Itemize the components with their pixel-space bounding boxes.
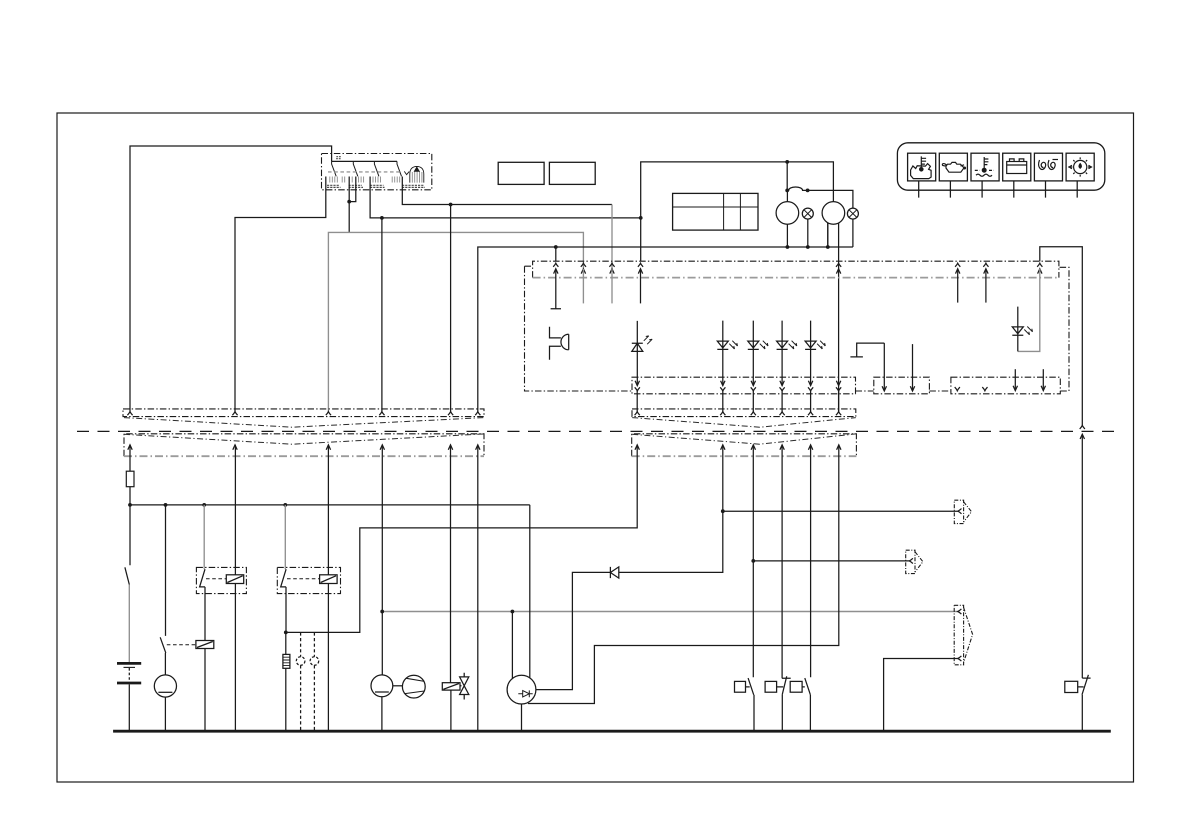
diode D1 bbox=[610, 567, 618, 578]
label 30 bbox=[336, 157, 341, 159]
ground bracket wire to strip bbox=[883, 343, 885, 391]
separator crossing arrow up bbox=[1080, 425, 1085, 429]
LED 3 bbox=[748, 321, 759, 386]
junction 15/54 branch bbox=[380, 216, 384, 220]
lamp supply rail with fuse squiggle bbox=[787, 187, 853, 247]
LED 4 bbox=[777, 321, 788, 386]
battery to ground bbox=[128, 684, 130, 731]
junction plug2 bbox=[751, 559, 755, 563]
regulator ground lead bbox=[521, 704, 523, 731]
page frame bbox=[57, 113, 1134, 782]
solenoid valve coil wire bbox=[450, 445, 452, 731]
cluster pin 2 grey lead bbox=[581, 263, 586, 267]
G2 sense wire through cluster bbox=[836, 381, 840, 386]
wire: instrument ground rail net A bbox=[478, 219, 853, 412]
terminal label 50a bbox=[327, 185, 341, 187]
junction bus sensor branch bbox=[164, 503, 168, 507]
ignition switch box S1 bbox=[322, 154, 432, 190]
junction K2 output bbox=[284, 631, 288, 635]
fuel sender feed wire bbox=[381, 445, 383, 675]
right connector top strip bbox=[632, 409, 856, 417]
gauge G1 circle bbox=[776, 202, 799, 225]
fuel pump circle bbox=[402, 675, 425, 698]
aux coil to ground bbox=[204, 649, 206, 732]
aux relay coil K3 bbox=[196, 641, 214, 649]
comb terminal 50a bbox=[330, 177, 338, 183]
relay K1 coil wire bbox=[234, 445, 236, 731]
cluster pin G2 sense arrows bbox=[836, 263, 841, 267]
dashed separator line between upper and lower harness bbox=[77, 430, 1118, 432]
grey link pin7 to warning LED bbox=[1018, 269, 1040, 352]
junction bus relay2 bbox=[283, 503, 287, 507]
comb terminal 19 bbox=[359, 177, 364, 183]
terminal label 15/54 bbox=[370, 185, 385, 187]
cluster lower strip segment 3 bbox=[951, 377, 1060, 394]
relay K1 coil bbox=[226, 575, 243, 584]
junction gauge1 bottom bbox=[786, 245, 790, 249]
relay K2 coil bbox=[320, 575, 338, 584]
cluster pin 5 bbox=[955, 263, 960, 267]
mechanical link of ignition switch bbox=[328, 171, 402, 173]
junction at gauge 1 top bbox=[785, 160, 789, 164]
icon square coolant temperature bbox=[971, 153, 999, 181]
gauge G1 top lead bbox=[786, 190, 788, 201]
right harness crossover fan bbox=[632, 418, 856, 445]
switch contact 3 bbox=[374, 161, 379, 176]
wire: battery feed to terminal 30 of ignition switch bbox=[130, 146, 332, 412]
relay K2 contact bbox=[281, 569, 286, 632]
right strip pin arrows bottom bbox=[635, 445, 639, 450]
fuse F1 bbox=[129, 445, 131, 505]
gauge G2 bottom leads bbox=[828, 223, 839, 412]
comb terminal 15/54 bbox=[373, 177, 381, 183]
cluster lower strip segment 1 bbox=[632, 377, 856, 394]
seg3 stub pin 1 bbox=[1014, 369, 1016, 390]
wire relay K2 output to HT rail and right connector bbox=[286, 445, 637, 633]
switch contact 2 bbox=[353, 161, 358, 176]
cluster pin 3 grey lead bbox=[609, 263, 614, 267]
ground bus bbox=[113, 730, 1111, 733]
terminal label 07/19 bbox=[349, 185, 364, 187]
cluster lower strip segment 2 bbox=[874, 377, 930, 394]
left strip pin arrows bottom bbox=[128, 445, 132, 450]
lamp L2 bulb bbox=[847, 208, 858, 219]
spare ground wire bbox=[477, 445, 479, 731]
main switch to battery bbox=[125, 505, 130, 585]
relay K1 contact bbox=[200, 569, 205, 640]
cluster pin 1 bbox=[553, 263, 558, 267]
grey wire: 07/19 net to connector pin 3 and cluster pin bbox=[328, 232, 583, 411]
gauge G2 circle bbox=[822, 202, 845, 225]
ballast resistor R1 bbox=[285, 632, 287, 731]
wire: 58 net horizontal bbox=[451, 204, 612, 206]
terminated pin lead with end bar bbox=[551, 269, 561, 309]
LCD display box bbox=[673, 193, 758, 230]
grey drop to cluster pin 3 bbox=[611, 205, 613, 269]
junction lamp1 bottom bbox=[806, 245, 810, 249]
plug P3 bbox=[954, 605, 972, 665]
plug P1 bbox=[954, 500, 971, 523]
cluster pin 4 lead bbox=[638, 263, 643, 267]
left strip pin arrows top bbox=[127, 412, 132, 416]
LED 1 in cluster bbox=[632, 321, 643, 386]
wire pin G2 sense to regulator bbox=[528, 445, 839, 704]
left harness crossover fan bbox=[124, 418, 484, 445]
terminal label 58-30-0P bbox=[402, 185, 425, 187]
wires from cluster to right connector bbox=[637, 391, 838, 412]
wire to plug1 bbox=[723, 510, 958, 512]
spark plug lead 2 bbox=[313, 632, 315, 731]
relay K2 link bbox=[287, 578, 320, 580]
wire: terminals 07 and 19 join bbox=[349, 177, 356, 233]
junction sender sense bbox=[380, 610, 384, 614]
relay K1 link bbox=[206, 578, 226, 580]
switch contact 1 bbox=[332, 161, 337, 176]
junction gauge2 bottom bbox=[826, 245, 830, 249]
warning LED right bbox=[1012, 307, 1023, 352]
comb terminal 07 bbox=[342, 177, 352, 183]
seg3 spare pins bbox=[955, 387, 960, 391]
icon square engine temperature bbox=[908, 153, 936, 181]
relay K2 box bbox=[277, 567, 340, 593]
wire pin to brake switch 2 bbox=[781, 445, 783, 678]
comb terminal 58 bbox=[392, 177, 400, 183]
instrument cluster outline box bbox=[525, 266, 1070, 391]
lamp L1 bulb bbox=[802, 208, 813, 219]
icon square battery charge bbox=[1003, 153, 1031, 181]
wire pin to horn switch bbox=[752, 445, 754, 677]
switch contact 4 bbox=[397, 161, 402, 176]
junction gauge1 lamp rail bbox=[785, 189, 789, 193]
icon square glow plug bbox=[1034, 153, 1062, 181]
wire connector to stop lamp plug bbox=[536, 445, 723, 690]
LED 5 bbox=[805, 321, 816, 386]
spark plug lead 1 bbox=[300, 632, 302, 731]
sender to ground bbox=[381, 697, 383, 732]
right connector bottom strip bbox=[632, 434, 857, 456]
relay K2 coil wire bbox=[327, 445, 329, 731]
label rectangle 1 bbox=[498, 162, 544, 184]
solenoid valve coil bbox=[442, 683, 460, 690]
icon square oil pressure bbox=[939, 153, 967, 181]
junction lamp1 top bbox=[806, 189, 810, 193]
voltage regulator circle bbox=[507, 675, 536, 704]
junction 07/19 bbox=[347, 200, 351, 204]
junction plug1 bbox=[721, 509, 725, 513]
fuel sender circle bbox=[371, 675, 393, 697]
pressure switch S2 bbox=[735, 681, 746, 692]
supply bus bbox=[130, 504, 530, 506]
wire: terminal 15/54 net to gauges and cluster pin bbox=[370, 162, 833, 412]
battery B1 bbox=[117, 662, 141, 665]
grey sense rail bbox=[382, 611, 958, 613]
wire: terminal 50a to connector pin 2 bbox=[235, 177, 326, 412]
left connector top strip bbox=[123, 409, 484, 417]
cluster pin 7 arrows bbox=[1037, 263, 1042, 267]
LED 2 turn indicator bbox=[717, 321, 728, 386]
wire to plug2 bbox=[753, 560, 909, 562]
sender pump link bbox=[393, 685, 403, 687]
parking-light dome symbol bbox=[410, 166, 424, 182]
buzzer symbol in cluster bbox=[550, 327, 569, 360]
terminal 30 bus bbox=[332, 160, 397, 162]
right strip pin arrows top bbox=[635, 412, 640, 416]
regulator diode mark bbox=[518, 690, 532, 697]
junction regulator sense bbox=[511, 610, 515, 614]
stub wire to strip seg2 bbox=[912, 344, 914, 391]
stop switch S5 bbox=[1065, 681, 1078, 692]
ground wire to plug P3 bbox=[884, 659, 958, 732]
warning icon panel rounded box bbox=[897, 143, 1104, 190]
regulator top leads bbox=[512, 505, 529, 679]
junction net A pin bbox=[554, 245, 558, 249]
plug P2 bbox=[906, 550, 923, 573]
junction 15/54 at cluster drop bbox=[639, 216, 643, 220]
relay K1 feed grey bbox=[203, 505, 205, 569]
wire: terminal 58 to connector pin 5 bbox=[402, 177, 450, 412]
pressure switch S4 bbox=[790, 681, 802, 692]
sensor circle G1 bbox=[154, 675, 176, 697]
solenoid valve body bbox=[460, 673, 469, 700]
switch link to aux coil bbox=[167, 644, 196, 646]
pressure switch S3 bbox=[765, 681, 777, 692]
junction bus relay1 bbox=[202, 503, 206, 507]
wire: lamp check rail from cluster pin to right hand drop bbox=[1040, 247, 1083, 426]
left connector bottom strip bbox=[124, 434, 484, 456]
contact check mark bbox=[404, 171, 409, 174]
sensor to ground bbox=[164, 697, 166, 731]
icon panel leads bbox=[919, 181, 1077, 198]
cluster pin 6 bbox=[983, 263, 988, 267]
wire: right hand drop to stop switch bbox=[1081, 434, 1083, 678]
cluster connector strip top bbox=[533, 261, 1059, 277]
wire pin to switch 3 bbox=[810, 445, 812, 677]
sensor branch switch bbox=[160, 505, 166, 675]
relay K1 box bbox=[196, 567, 246, 593]
label rectangle 2 bbox=[549, 162, 595, 184]
seg3 stub pin 2 bbox=[1042, 369, 1044, 390]
icon square oil temperature gear bbox=[1066, 153, 1094, 181]
cluster internal ground bracket bbox=[850, 343, 884, 357]
junction 58 branch bbox=[449, 203, 453, 207]
relay K2 feed grey bbox=[284, 505, 286, 569]
junction bus battery bbox=[128, 503, 132, 507]
